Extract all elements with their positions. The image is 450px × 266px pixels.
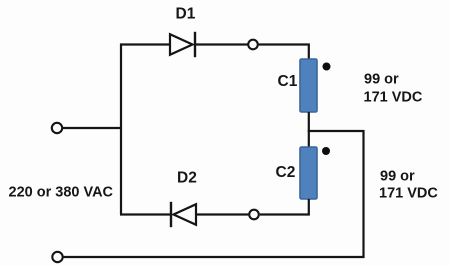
svg-text:220 or 380 VAC: 220 or 380 VAC (9, 185, 114, 201)
wire: left vertical rail (120, 44, 122, 215)
terminal (open circle) after D1 (248, 40, 258, 50)
svg-text:99 or: 99 or (380, 169, 415, 185)
label 99 or 171 VDC (bottom) (379, 169, 438, 202)
wire: C1 bottom to C2 top (through junction) (308, 112, 310, 147)
wire: C2 bottom down and left to terminal (260, 199, 309, 215)
label 99 or 171 VDC (top) (364, 72, 423, 106)
wire: bottom return from terminal to right rail (64, 256, 365, 258)
diode D2 (171, 202, 196, 227)
terminal (open circle) AC input top (52, 123, 62, 133)
wire: terminal to D2 anode (196, 213, 248, 215)
terminal (open circle) AC input bottom (52, 252, 62, 262)
wire: D1 cathode to terminal (195, 43, 248, 45)
svg-text:D2: D2 (177, 170, 197, 187)
svg-text:99 or: 99 or (364, 72, 399, 88)
diode D1 (170, 32, 195, 57)
svg-text:C2: C2 (276, 164, 296, 181)
svg-text:171 VDC: 171 VDC (379, 186, 438, 202)
svg-text:171 VDC: 171 VDC (364, 90, 423, 106)
wire: terminal to top-right corner, down to C1 (259, 45, 309, 60)
wire: top rail corner to D1 anode (120, 43, 170, 45)
polarity dot for C2 (322, 147, 330, 155)
wire: AC input to left rail (63, 127, 121, 129)
svg-text:D1: D1 (176, 6, 196, 23)
wire: junction branch to right rail (308, 130, 365, 132)
wire: right vertical rail (362, 130, 364, 258)
svg-text:C1: C1 (278, 73, 298, 90)
wire: D2 cathode to left rail (120, 213, 171, 215)
polarity dot for C1 (323, 63, 331, 71)
terminal (open circle) center tap (249, 210, 259, 220)
capacitor C1 (300, 59, 317, 112)
capacitor C2 (300, 147, 317, 199)
